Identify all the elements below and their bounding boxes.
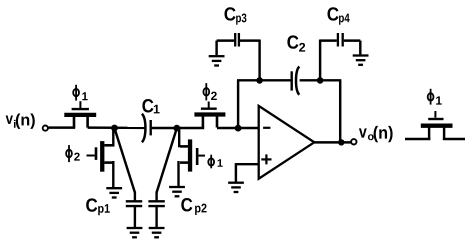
wire S1 to node X — [88, 126, 147, 129]
transistor switch S2 (phi2) — [194, 102, 225, 128]
label Cp2 — [181, 198, 206, 215]
output terminal vo(n) — [351, 139, 356, 144]
capacitor C1 — [142, 114, 151, 143]
label vi(n) — [6, 113, 35, 128]
label phi2 (left transistor) — [66, 145, 80, 162]
wire S2 to op-amp inverting input — [217, 127, 259, 129]
label C1 — [142, 99, 159, 113]
node V junction dot (inverting input) — [235, 125, 242, 132]
label Cp1 — [86, 198, 110, 215]
capacitor Cp3 — [217, 33, 260, 80]
wire feedback top left segment — [237, 79, 291, 81]
node dot (Cp3 tap) — [256, 77, 263, 84]
ground (under Cp1) — [127, 228, 143, 237]
label phi1 (right transistor) — [208, 155, 222, 169]
wire op-amp output — [314, 141, 351, 143]
capacitor Cp2 — [148, 192, 164, 228]
ground (under Cp2) — [149, 228, 165, 237]
node X junction dot — [111, 125, 118, 132]
node dot (output junction) — [338, 139, 344, 145]
ground (under phi1 transistor) — [169, 187, 185, 196]
ground (under Cp4) — [353, 56, 369, 65]
op-amp U1 — [259, 106, 315, 179]
transistor switch S1 (phi1) — [64, 101, 96, 127]
label C2 — [287, 35, 305, 51]
label vo(n) — [359, 126, 393, 142]
label Cp4 — [327, 7, 349, 25]
input terminal vi(n) — [43, 126, 48, 131]
capacitor C2 — [292, 67, 300, 95]
transistor switch S3 (phi1, next stage) — [405, 111, 465, 139]
node dot (Cp4 tap) — [317, 77, 324, 84]
wire non-inverting input to ground — [236, 163, 259, 182]
node Y junction dot — [173, 125, 180, 132]
wire feedback right vertical — [339, 80, 341, 142]
wire C1 to switch S2 — [152, 127, 204, 129]
ground (under phi2 transistor) — [106, 188, 122, 197]
label phi1 (S3) — [428, 89, 442, 105]
wire diagonal node X to Cp1 — [115, 128, 135, 192]
label Cp3 — [224, 7, 246, 25]
ground (under Cp3) — [209, 56, 225, 65]
wire feedback top right segment — [300, 79, 342, 81]
transistor Q phi2 (node X to ground) — [87, 129, 115, 188]
capacitor Cp4 — [320, 33, 360, 80]
capacitor Cp1 — [126, 192, 142, 228]
wire input to switch S1 — [48, 126, 75, 128]
ground (op-amp non-inverting input) — [228, 183, 244, 192]
label phi2 (S2) — [203, 83, 216, 100]
label phi1 (S1) — [73, 85, 87, 101]
wire diagonal node Y to Cp2 — [157, 128, 177, 192]
wire feedback left vertical — [237, 80, 239, 128]
transistor Q phi1 (node Y to ground) — [179, 129, 206, 187]
